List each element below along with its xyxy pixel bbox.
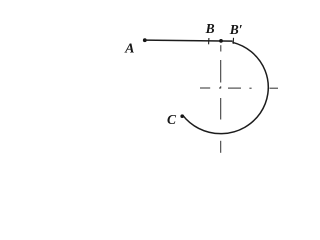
line A to B' <box>146 40 233 41</box>
svg-text:A: A <box>124 41 134 56</box>
svg-text:B: B <box>205 21 215 36</box>
point C <box>180 114 184 118</box>
point A <box>143 38 147 42</box>
tick B <box>208 38 210 44</box>
svg-text:C: C <box>167 112 177 127</box>
horizontal centerline <box>200 87 278 89</box>
tick B' <box>232 38 234 44</box>
vertical centerline <box>220 45 222 153</box>
arc B' to C <box>183 42 269 133</box>
svg-text:B′: B′ <box>229 22 243 37</box>
tangent point dot <box>219 39 223 43</box>
